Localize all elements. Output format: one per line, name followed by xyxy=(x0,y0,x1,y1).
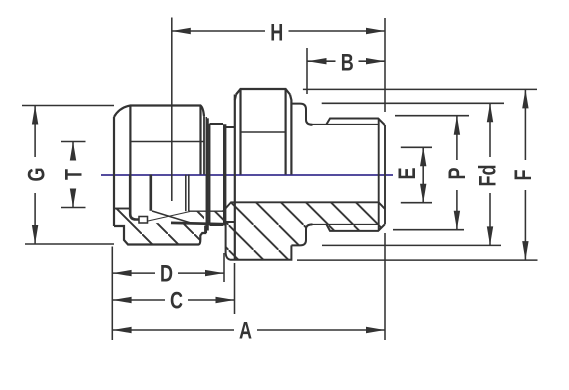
body hex corner lines xyxy=(239,89,241,175)
shoulder bottom edge xyxy=(291,224,312,245)
end face lines top xyxy=(378,119,380,231)
dim F line xyxy=(524,89,526,160)
neck cylinder A bottom edge xyxy=(210,224,224,226)
svg-text:F: F xyxy=(511,169,537,180)
dim H line xyxy=(172,30,265,32)
body cone diagonal xyxy=(152,211,190,223)
dim D/C/A left extension line xyxy=(111,247,113,341)
dim P line xyxy=(456,116,458,160)
svg-text:D: D xyxy=(160,261,173,287)
body hex chamfer mid line xyxy=(241,131,286,133)
neck cylinder B top edge xyxy=(225,126,235,128)
dim T ticks xyxy=(61,141,86,143)
svg-text:C: C xyxy=(170,288,183,314)
nut section outline bottom xyxy=(114,226,208,245)
thick divider ring xyxy=(223,124,226,225)
nut bore line xyxy=(114,208,129,210)
dim P extension lines xyxy=(395,115,469,117)
dim E ticks xyxy=(401,146,432,148)
body hex right face xyxy=(290,95,291,175)
dim C right extension xyxy=(234,263,236,314)
dim C line xyxy=(113,299,165,301)
body section hatch polygon xyxy=(208,202,385,259)
nut thread relief edge (thick) xyxy=(130,175,139,220)
back ferrule box xyxy=(139,217,148,224)
svg-text:P: P xyxy=(445,167,471,179)
svg-text:E: E xyxy=(395,167,421,179)
svg-text:G: G xyxy=(24,167,50,181)
ferrule nose lines xyxy=(185,175,187,212)
dim Fd line xyxy=(489,103,491,157)
dim D line xyxy=(113,272,155,274)
hex bottom face xyxy=(226,222,292,259)
dim F extension lines xyxy=(303,88,537,90)
neck cylinder A top edge xyxy=(210,123,224,125)
dim Fd extension lines xyxy=(322,102,504,104)
body hex B1 top xyxy=(236,89,290,95)
nut hex corner lines xyxy=(129,106,131,175)
neck cylinder B bottom edge xyxy=(225,221,235,223)
nut left face xyxy=(113,117,115,226)
neck inner bore line xyxy=(189,210,223,212)
dim H/B/A right extension line xyxy=(384,18,386,112)
svg-text:A: A xyxy=(239,318,252,344)
nut section hatch xyxy=(114,209,204,245)
thread top root line xyxy=(313,123,379,125)
nut right face double line xyxy=(203,116,205,174)
shoulder top edge xyxy=(291,104,312,125)
centerline (blue) xyxy=(101,174,393,176)
svg-text:Fd: Fd xyxy=(475,165,501,187)
dim D right extension xyxy=(223,253,225,282)
thread bottom root line xyxy=(313,223,379,225)
thread bottom crest + chamfer xyxy=(327,224,385,231)
thread top crest line xyxy=(327,119,385,126)
body end face inside nut (thick) xyxy=(150,175,153,211)
dim A line xyxy=(113,329,234,331)
body section outline xyxy=(223,202,385,211)
dim G extension lines xyxy=(22,105,114,107)
dim T line xyxy=(72,142,74,161)
dim E line xyxy=(422,147,424,202)
dim G line xyxy=(34,106,36,158)
svg-text:H: H xyxy=(270,20,283,46)
dim H extension vertical (tube stop) xyxy=(171,18,173,202)
svg-text:T: T xyxy=(61,169,87,180)
dim B left extension xyxy=(306,48,308,94)
body hex left face xyxy=(234,95,236,260)
nut chamfer mid line xyxy=(130,141,204,143)
nut N1 top outline xyxy=(114,106,204,118)
ferrule contact heavy line xyxy=(171,223,226,224)
svg-text:B: B xyxy=(341,50,354,76)
front ferrule taper diagonal xyxy=(148,212,190,222)
dim B line xyxy=(308,60,336,62)
